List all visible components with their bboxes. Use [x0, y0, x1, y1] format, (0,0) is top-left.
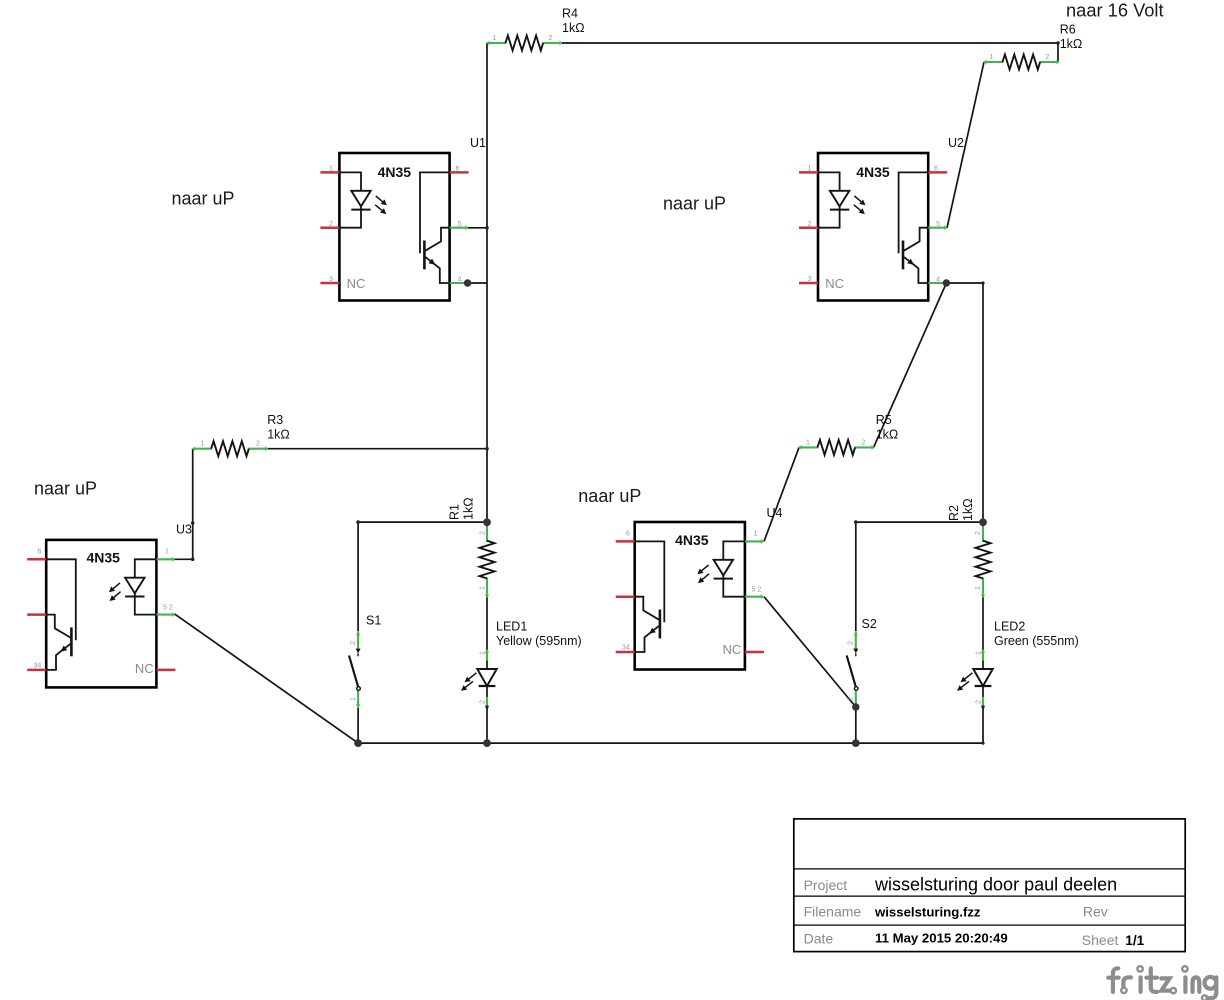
- svg-text:2: 2: [350, 641, 357, 645]
- svg-text:Date: Date: [804, 931, 834, 947]
- svg-text:NC: NC: [135, 661, 154, 676]
- svg-text:2: 2: [256, 441, 260, 448]
- svg-text:1: 1: [480, 651, 487, 655]
- svg-text:1: 1: [848, 697, 855, 701]
- svg-text:S1: S1: [366, 614, 381, 628]
- svg-text:5 2: 5 2: [752, 587, 762, 594]
- svg-text:2: 2: [480, 700, 487, 704]
- svg-text:R3: R3: [267, 413, 283, 427]
- svg-text:1: 1: [201, 441, 205, 448]
- svg-text:naar uP: naar uP: [578, 486, 641, 506]
- svg-text:34: 34: [622, 645, 630, 652]
- svg-text:R4: R4: [562, 7, 578, 21]
- svg-text:Filename: Filename: [804, 904, 862, 920]
- svg-text:3: 3: [329, 276, 333, 283]
- svg-text:1: 1: [350, 697, 357, 701]
- svg-text:34: 34: [34, 663, 42, 670]
- svg-text:4N35: 4N35: [675, 532, 709, 548]
- svg-text:2: 2: [862, 439, 866, 446]
- svg-text:2: 2: [975, 531, 982, 535]
- svg-text:NC: NC: [723, 642, 742, 657]
- svg-text:1: 1: [165, 549, 169, 556]
- svg-text:5: 5: [458, 221, 462, 228]
- svg-text:4: 4: [458, 276, 462, 283]
- svg-text:1kΩ: 1kΩ: [562, 21, 585, 35]
- svg-text:U3: U3: [176, 523, 192, 537]
- svg-text:4: 4: [936, 276, 940, 283]
- svg-text:U2: U2: [948, 136, 964, 150]
- svg-text:naar uP: naar uP: [34, 479, 97, 499]
- svg-text:Rev: Rev: [1083, 904, 1108, 920]
- svg-text:U1: U1: [470, 136, 486, 150]
- svg-text:5: 5: [936, 221, 940, 228]
- svg-text:Green (555nm): Green (555nm): [994, 634, 1079, 648]
- svg-text:2: 2: [1046, 54, 1050, 61]
- svg-text:2: 2: [480, 531, 487, 535]
- svg-text:LED2: LED2: [994, 620, 1025, 634]
- svg-text:wisselsturing.fzz: wisselsturing.fzz: [874, 905, 981, 920]
- svg-text:1kΩ: 1kΩ: [1060, 37, 1083, 51]
- svg-text:4N35: 4N35: [87, 550, 121, 566]
- svg-text:2: 2: [549, 35, 553, 42]
- svg-text:6: 6: [456, 166, 460, 173]
- svg-text:6: 6: [934, 166, 938, 173]
- svg-text:1: 1: [990, 54, 994, 61]
- svg-text:R6: R6: [1060, 23, 1076, 37]
- svg-text:LED1: LED1: [496, 620, 527, 634]
- svg-text:1kΩ: 1kΩ: [462, 497, 476, 520]
- svg-text:2: 2: [808, 221, 812, 228]
- svg-text:6: 6: [38, 549, 42, 556]
- svg-text:1kΩ: 1kΩ: [876, 428, 899, 442]
- svg-text:Yellow (595nm): Yellow (595nm): [496, 634, 582, 648]
- svg-text:4N35: 4N35: [378, 164, 412, 180]
- svg-text:1: 1: [493, 35, 497, 42]
- svg-text:11 May 2015 20:20:49: 11 May 2015 20:20:49: [875, 931, 1008, 946]
- svg-text:NC: NC: [347, 276, 366, 291]
- svg-text:1: 1: [975, 586, 982, 590]
- svg-text:1kΩ: 1kΩ: [267, 428, 290, 442]
- svg-text:naar uP: naar uP: [663, 194, 726, 214]
- svg-text:Project: Project: [804, 877, 848, 893]
- svg-text:naar uP: naar uP: [172, 189, 235, 209]
- svg-text:1/1: 1/1: [1125, 933, 1144, 948]
- svg-text:5 2: 5 2: [163, 605, 173, 612]
- svg-text:U4: U4: [767, 506, 783, 520]
- svg-text:1: 1: [329, 166, 333, 173]
- svg-text:naar 16 Volt: naar 16 Volt: [1066, 0, 1164, 21]
- svg-text:6: 6: [626, 531, 630, 538]
- svg-text:R2: R2: [947, 505, 961, 521]
- svg-text:wisselsturing door paul deelen: wisselsturing door paul deelen: [874, 875, 1117, 895]
- svg-text:Sheet: Sheet: [1082, 932, 1119, 948]
- svg-text:2: 2: [976, 700, 983, 704]
- svg-text:3: 3: [808, 276, 812, 283]
- svg-text:2: 2: [329, 221, 333, 228]
- svg-text:1: 1: [754, 531, 758, 538]
- svg-text:R1: R1: [448, 504, 462, 520]
- svg-text:1: 1: [976, 651, 983, 655]
- svg-text:1: 1: [480, 586, 487, 590]
- svg-text:1: 1: [808, 166, 812, 173]
- svg-text:2: 2: [848, 641, 855, 645]
- svg-text:1: 1: [806, 439, 810, 446]
- svg-text:R5: R5: [876, 413, 892, 427]
- svg-text:1kΩ: 1kΩ: [961, 498, 975, 521]
- svg-text:S2: S2: [862, 617, 877, 631]
- svg-text:NC: NC: [825, 276, 844, 291]
- svg-text:4N35: 4N35: [856, 164, 890, 180]
